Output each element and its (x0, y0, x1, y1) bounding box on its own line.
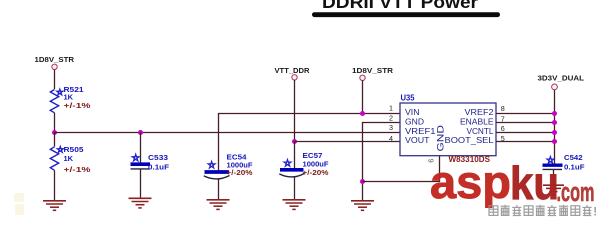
svg-text:VOUT: VOUT (405, 135, 430, 145)
pin numbers right (501, 104, 505, 143)
op-amp U35 box (400, 93, 496, 155)
node junction R divider (52, 130, 57, 135)
wire GND pin2 (363, 123, 401, 201)
capacitor C533 (131, 153, 170, 171)
svg-text:0.1uF: 0.1uF (564, 162, 585, 171)
wire C542 to ground (553, 169, 555, 185)
svg-text:+/-1%: +/-1% (64, 101, 91, 110)
svg-text:U35: U35 (401, 93, 416, 102)
node VTT_DDR (port) (275, 66, 311, 80)
svg-text:.com: .com (557, 177, 595, 207)
node junction VOUT (292, 139, 297, 144)
wire 1D8V_STR drop to VIN (362, 81, 364, 114)
svg-text:3: 3 (389, 123, 393, 132)
wire VOUT pin4 (295, 141, 401, 143)
pin numbers left (389, 104, 393, 144)
svg-text:1: 1 (389, 104, 393, 113)
wire EC57 to ground (294, 177, 296, 201)
svg-text:+/-20%: +/-20% (227, 168, 253, 177)
svg-text:ku: ku (510, 157, 559, 209)
node junction gnd (360, 179, 365, 184)
wire pin8 (496, 113, 555, 115)
capacitor C542 (543, 153, 585, 171)
faint yellow mark bottom-left (14, 193, 24, 215)
wire 3D3V rail (554, 90, 556, 164)
svg-text:4: 4 (389, 134, 393, 143)
svg-text:!: ! (593, 207, 597, 219)
resistor R521 (50, 85, 91, 113)
svg-text:1K: 1K (64, 154, 74, 163)
svg-text:+/-1%: +/-1% (64, 165, 91, 174)
capacitor EC57 (279, 151, 329, 177)
wire VOUT to EC57 (294, 142, 296, 170)
svg-text:BOOT_SEL: BOOT_SEL (445, 135, 494, 145)
resistor R505 (50, 133, 91, 175)
ground (C533) (129, 198, 152, 208)
wire R521 to node (54, 113, 56, 133)
wire EC54 to ground (218, 178, 220, 200)
node 3D3V_DUAL (port) (538, 74, 585, 90)
ground (C542) (543, 185, 564, 195)
svg-text:asp: asp (430, 156, 511, 208)
wire pin7 (496, 122, 555, 124)
svg-text:C542: C542 (564, 153, 583, 162)
svg-text:GND: GND (435, 125, 446, 152)
svg-text:R505: R505 (64, 145, 84, 154)
svg-text:DDRII VTT Power: DDRII VTT Power (322, 0, 478, 12)
watermark aspku.com (430, 156, 595, 209)
svg-text:1D8V_STR: 1D8V_STR (352, 66, 394, 75)
svg-text:6: 6 (501, 124, 505, 133)
node 1D8V_STR (right port) (352, 66, 394, 81)
node 1D8V_STR (left port) (35, 55, 75, 70)
wire VIN line pin1 (219, 114, 401, 171)
svg-text:VTT_DDR: VTT_DDR (275, 66, 311, 75)
wire pin5 (496, 141, 555, 143)
svg-text:0.1uF: 0.1uF (148, 162, 169, 171)
ground (EC57) (283, 200, 306, 210)
wire C533 to ground (140, 169, 142, 199)
wire VREF1 bus (55, 132, 401, 134)
svg-text:3D3V_DUAL: 3D3V_DUAL (538, 74, 585, 83)
wire node to C533 (140, 133, 142, 164)
wire gnd pin9 return (363, 156, 440, 182)
wire port to R521 (54, 70, 56, 90)
svg-text:1D8V_STR: 1D8V_STR (35, 55, 75, 64)
title DDRII VTT Power (312, 0, 500, 17)
svg-text:1000uF: 1000uF (303, 160, 329, 169)
capacitor EC54 (204, 153, 253, 179)
wire VTT_DDR to VOUT (294, 80, 296, 142)
svg-text:8: 8 (501, 104, 505, 113)
svg-text:EC57: EC57 (303, 151, 323, 160)
svg-text:+/-20%: +/-20% (303, 168, 329, 177)
ground (EC54) (207, 200, 230, 210)
node junctions on rail (552, 111, 557, 116)
ground (R505) (43, 201, 66, 211)
svg-text:2: 2 (389, 114, 393, 123)
node junction VIN (360, 111, 365, 116)
ground (U35) (351, 201, 374, 211)
wire R505 to ground (54, 170, 56, 201)
svg-text:C533: C533 (148, 153, 168, 162)
node junction C533 (138, 130, 143, 135)
wire pin6 (496, 132, 555, 134)
